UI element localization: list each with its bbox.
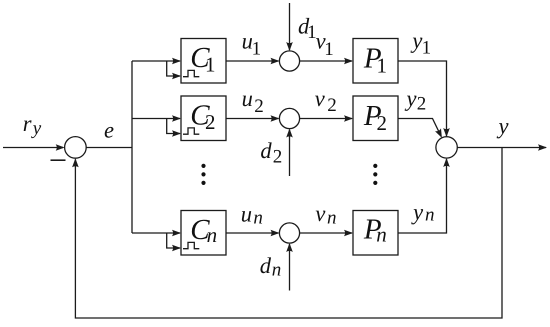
svg-text:n: n [207,223,218,247]
svg-text:d: d [260,253,272,278]
sampler pulse icon of Cn [183,242,199,248]
vdots left (between C2 and Cn) [201,164,205,168]
svg-text:1: 1 [205,53,216,77]
summing junction A2 [279,108,299,128]
svg-text:y: y [410,28,422,53]
wire r_y input [3,147,63,149]
wire dn into An [289,244,291,291]
wire branch vertical (node e) [131,61,133,233]
wire u2: C2 to A2 [226,118,279,120]
arrowhead u2 into A2 [271,115,280,122]
arrowhead row n sampler [172,245,181,252]
wire e: S0 to branch vertical [86,147,132,149]
svg-text:e: e [104,117,114,142]
arrowhead un into An [271,230,280,237]
wire u1: C1 to A1 [226,60,279,62]
svg-text:1: 1 [377,53,388,77]
arrowhead v1 into P1 [344,58,353,65]
arrowhead d2 up into A2 [286,129,293,138]
svg-text:v: v [315,86,325,111]
block Cn [181,211,226,256]
svg-text:u: u [242,86,253,111]
svg-text:1: 1 [252,39,262,60]
arrowhead y1 down into Sy [443,128,450,137]
arrowhead row n into Cn [172,230,181,237]
block Pn [353,211,398,256]
arrowhead dn up into An [286,243,293,252]
arrowhead u1 into A1 [271,58,280,65]
arrowhead row1 sampler [172,73,181,80]
svg-text:2: 2 [205,110,216,134]
svg-text:n: n [327,208,337,229]
wire row n sampler fork [167,233,180,248]
summing junction Sy (right) [436,137,457,158]
wire y2: P2 to Sy (diagonal) [398,119,441,137]
arrowhead feedback up into S0 [72,158,79,167]
svg-text:v: v [315,201,325,226]
wire un: Cn to An [226,232,279,234]
block C1 [181,39,226,84]
arrowhead row1 into C1 [172,58,181,65]
svg-text:2: 2 [273,147,283,168]
wire row1 sampler fork [167,61,180,76]
svg-text:2: 2 [254,96,264,117]
svg-text:2: 2 [417,94,427,115]
wire feedback loop [75,148,502,319]
arrowhead vn into Pn [344,230,353,237]
wire d2 into A2 [289,130,291,177]
arrowhead v2 into P2 [344,115,353,122]
arrowhead row2 sampler [172,130,181,137]
svg-text:d: d [260,138,272,163]
arrowhead y2 diagonal into Sy [435,128,445,139]
wire v1: A1 to P1 [300,60,353,62]
svg-text:r: r [23,111,32,136]
wire row2 into C2 [132,118,180,120]
svg-text:1: 1 [422,38,432,59]
svg-text:2: 2 [377,111,388,135]
arrowhead yn up into Sy [443,158,450,167]
svg-text:u: u [241,201,252,226]
svg-text:1: 1 [324,39,334,60]
arrowhead y output [538,144,547,151]
wire d1 into A1 [289,3,291,50]
block P2 [353,96,398,141]
wire vn: An to Pn [300,232,353,234]
wire yn: Pn to Sy [398,159,447,233]
sampler pulse icon of C2 [183,128,199,134]
summing junction An [279,223,299,243]
summing junction A1 [279,51,299,71]
sampler pulse icon of C1 [183,70,199,76]
svg-text:n: n [425,204,435,225]
arrowhead r_y into S0 [56,144,65,151]
wire v2: A2 to P2 [300,118,353,120]
wire y1: P1 to Sy [398,61,447,136]
svg-text:y: y [497,113,509,138]
minus sign at S0 [51,159,66,161]
arrowhead d1 down [286,42,293,51]
summing junction S0 (left) [65,137,87,159]
arrowhead row2 into C2 [172,115,181,122]
wire row1 into C1 [132,60,180,62]
block C2 [181,96,226,141]
svg-text:n: n [253,208,263,229]
svg-text:y: y [405,86,417,111]
svg-text:y: y [31,118,42,139]
svg-text:n: n [272,259,282,280]
wire row2 sampler fork [167,119,180,134]
vdots right (between P2 and Pn) [373,164,377,168]
svg-text:y: y [411,200,423,225]
block P1 [353,39,398,84]
svg-text:2: 2 [327,95,337,116]
wire row n into Cn [132,232,180,234]
wire y output [457,147,546,149]
svg-text:n: n [376,222,387,246]
